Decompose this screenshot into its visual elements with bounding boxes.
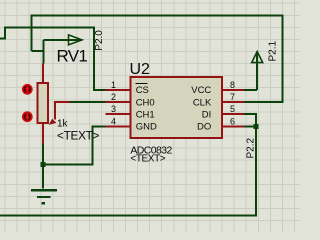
svg-text:4: 4 [111, 116, 116, 126]
junction ground node [41, 162, 46, 167]
svg-text:U2: U2 [130, 61, 151, 78]
pin 4 stub [106, 125, 131, 127]
pot decrement button (down) [22, 111, 33, 122]
svg-text:CLK: CLK [193, 97, 212, 108]
svg-text:2: 2 [111, 92, 116, 102]
svg-text:VCC: VCC [191, 85, 211, 96]
svg-text:CS: CS [136, 85, 149, 96]
svg-text:DO: DO [197, 122, 211, 133]
ground [31, 190, 57, 203]
pot bottom pin [42, 123, 44, 144]
pin 1 stub [106, 89, 131, 91]
svg-text:DI: DI [202, 109, 212, 120]
power terminal arrow up (VCC) [252, 52, 263, 63]
wire DI pin 5 net down to bottom left (P2.2) [0, 114, 256, 215]
wire GND net: pin 4 to ground column [43, 126, 106, 164]
wire wiper to CH0 pin 2 [70, 101, 106, 103]
pin 7 stub [222, 101, 244, 103]
pot wiper pin path [55, 102, 70, 119]
wire VCC pin 8 to power terminal [244, 52, 257, 91]
svg-text:7: 7 [230, 92, 235, 102]
svg-text:3: 3 [111, 104, 116, 114]
pot increment button (up) [22, 84, 33, 95]
wire P2.0 net: left edge to pin 1 CS [0, 27, 106, 90]
svg-text:P2.0: P2.0 [94, 30, 105, 51]
junction DO/DI node [253, 124, 258, 129]
pot top pin [42, 64, 44, 83]
svg-text:<TEXT>: <TEXT> [57, 128, 100, 142]
potentiometer RV1 body [38, 83, 48, 123]
pin 8 stub [222, 89, 244, 91]
wire P2.1 net trunk: pot top column to CLK pin 7 [32, 15, 283, 102]
wire DO pin 6 to junction [244, 125, 256, 127]
svg-text:P2.1: P2.1 [268, 40, 279, 61]
svg-text:GND: GND [136, 122, 157, 133]
wire pot top lead column [43, 40, 45, 64]
pin 6 stub [222, 125, 244, 127]
chip U2 body [130, 77, 222, 138]
svg-text:5: 5 [230, 104, 235, 114]
wire pot bottom lead to ground [42, 144, 44, 189]
pin 5 stub [222, 113, 244, 115]
pin 2 stub [106, 101, 131, 103]
svg-text:CH1: CH1 [136, 109, 155, 120]
svg-text:RV1: RV1 [57, 47, 88, 66]
pin 3 stub [106, 113, 131, 115]
svg-text:<TEXT>: <TEXT> [130, 154, 165, 165]
svg-text:8: 8 [230, 80, 235, 90]
wire jog to pot top column [32, 50, 44, 52]
svg-text:P2.2: P2.2 [246, 137, 257, 158]
pot wiper arrowhead [49, 119, 57, 125]
svg-text:6: 6 [230, 116, 235, 126]
power terminal arrow right (pot top) [69, 35, 83, 45]
svg-text:CH0: CH0 [136, 97, 155, 108]
svg-text:1: 1 [111, 80, 116, 90]
wire power-arrow stem (right) [44, 39, 83, 41]
